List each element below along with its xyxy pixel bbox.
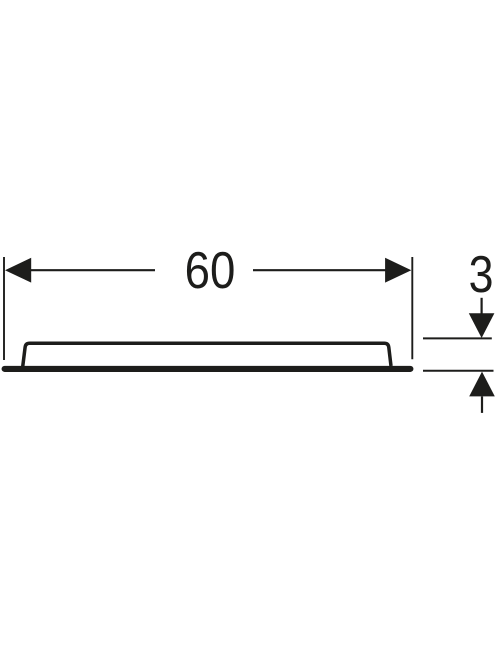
lower tick line of dimension 3 bbox=[423, 370, 494, 372]
svg-text:60: 60 bbox=[185, 242, 236, 299]
left extension line bbox=[3, 257, 5, 360]
leader line below label 3 bbox=[481, 298, 483, 314]
label 3 bbox=[469, 246, 494, 304]
tail line of up arrowhead bbox=[481, 397, 483, 413]
down arrowhead of dimension 3 bbox=[469, 313, 495, 338]
left arrowhead of dimension 60 bbox=[5, 258, 31, 283]
dimension line 60, right segment bbox=[253, 269, 387, 271]
upper tick line of dimension 3 bbox=[423, 337, 492, 339]
svg-text:3: 3 bbox=[469, 246, 494, 304]
dimension line 60, left segment bbox=[29, 269, 155, 271]
label 60 bbox=[185, 242, 236, 299]
base plate (thick bottom line) bbox=[5, 366, 411, 372]
shower surface profile (top and sloped sides) bbox=[23, 343, 391, 367]
right arrowhead of dimension 60 bbox=[385, 258, 411, 283]
right extension line bbox=[411, 257, 413, 359]
up arrowhead of dimension 3 bbox=[469, 372, 495, 397]
